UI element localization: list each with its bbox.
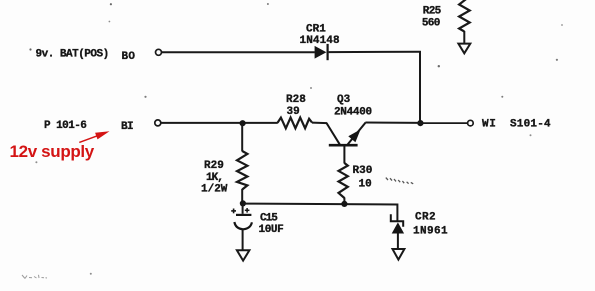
svg-text:C15: C15 <box>260 213 278 225</box>
junction bottom-left node <box>240 200 246 206</box>
diode CR1 <box>315 44 328 60</box>
junction base-divider node <box>240 120 246 126</box>
svg-text:Q3: Q3 <box>337 94 351 106</box>
capacitor C15 bottom lead <box>242 229 244 250</box>
wire Q3 emitter to junction <box>365 122 420 124</box>
pencil hatch marks right of R30 <box>386 178 413 184</box>
capacitor C15 top lead <box>242 205 244 214</box>
terminal BI circle <box>155 120 161 126</box>
wire bottom rail to zener corner <box>243 204 398 221</box>
svg-text:R29: R29 <box>204 160 224 172</box>
resistor R28 <box>278 118 313 129</box>
svg-text:R25: R25 <box>423 6 442 18</box>
plus sign right of C15 <box>245 208 250 213</box>
wire R29 top lead <box>241 123 243 151</box>
ground below C15 <box>237 250 250 260</box>
svg-text:1/2W: 1/2W <box>201 184 228 196</box>
red annotation arrow <box>79 131 109 142</box>
junction collector node <box>417 120 423 126</box>
wire R29 bottom lead <box>241 189 243 203</box>
svg-text:WI: WI <box>482 118 497 130</box>
ground below R25 <box>458 44 470 54</box>
wire BI rail to R28 <box>161 122 277 124</box>
resistor R30 <box>339 163 348 203</box>
svg-text:CR1: CR1 <box>306 24 326 36</box>
svg-text:BO: BO <box>122 51 136 63</box>
svg-text:S101-4: S101-4 <box>510 119 551 131</box>
wire R28 to Q3 base-bar <box>312 122 327 125</box>
svg-text:12v supply: 12v supply <box>10 142 95 161</box>
resistor R29 <box>237 151 247 190</box>
zener diode CR2 <box>391 214 404 249</box>
wire top rail left from BO terminal to CR1 <box>162 51 315 53</box>
svg-text:P 101-6: P 101-6 <box>44 120 86 132</box>
svg-text:R30: R30 <box>353 165 373 177</box>
terminal BO circle <box>156 49 162 55</box>
svg-text:CR2: CR2 <box>415 212 436 224</box>
junction R30 bottom node <box>341 201 347 207</box>
svg-text:9v. BAT(POS): 9v. BAT(POS) <box>36 48 109 60</box>
svg-text:1K,: 1K, <box>206 172 223 184</box>
capacitor C15 plates <box>234 215 252 229</box>
svg-text:560: 560 <box>422 18 440 30</box>
wire top rail right from CR1 to corner <box>329 51 421 53</box>
svg-text:2N4400: 2N4400 <box>334 106 372 118</box>
resistor R25 (top right, cut off) <box>459 0 470 43</box>
svg-text:39: 39 <box>287 106 300 118</box>
svg-text:1N4148: 1N4148 <box>300 35 341 47</box>
wire vertical drop to collector junction <box>419 51 421 123</box>
svg-text:10UF: 10UF <box>259 224 284 236</box>
svg-text:1N961: 1N961 <box>413 226 448 238</box>
wire output to WI terminal <box>420 122 467 124</box>
faint pencil scribble bottom left <box>22 275 47 279</box>
svg-text:BI: BI <box>121 121 133 133</box>
terminal WI circle <box>468 120 474 126</box>
ground below CR2 <box>393 249 405 260</box>
svg-text:R28: R28 <box>286 94 306 106</box>
plus sign left of C15 <box>231 209 236 214</box>
transistor Q3 <box>327 123 366 164</box>
svg-text:10: 10 <box>359 178 372 190</box>
